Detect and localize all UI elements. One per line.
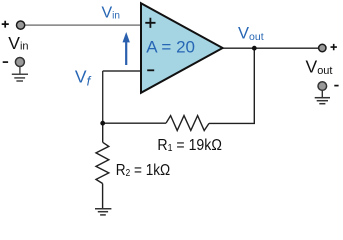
svg-text:R2 = 1kΩ: R2 = 1kΩ [116,162,171,179]
svg-text:R1 = 19kΩ: R1 = 19kΩ [157,137,222,154]
svg-text:A = 20: A = 20 [146,37,195,56]
